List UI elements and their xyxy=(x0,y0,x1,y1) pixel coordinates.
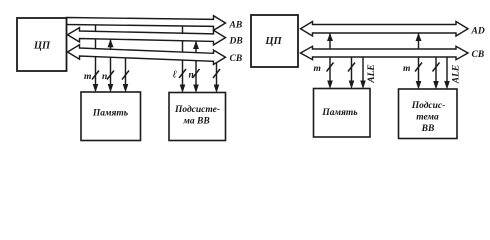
wire: right memory multiplexed line m from AD xyxy=(329,33,331,84)
arrowhead down into right memory multiplexed xyxy=(327,81,333,90)
arrowhead up into DB from left memory data xyxy=(108,39,114,47)
svg-text:Память: Память xyxy=(92,109,129,119)
wire: left IO address line l from AB xyxy=(182,26,184,88)
arrowhead down into right IO multiplexed xyxy=(416,81,422,90)
slash width mark l line left IO xyxy=(179,69,186,78)
slash width mark control line right memory xyxy=(348,63,355,72)
bus CB control bus right diagram xyxy=(301,46,469,59)
arrowhead down into left memory data xyxy=(108,84,114,93)
svg-text:ALE: ALE xyxy=(367,64,377,83)
slash width mark control line left IO xyxy=(213,69,220,78)
svg-text:AD: AD xyxy=(471,27,485,37)
svg-text:ЦП: ЦП xyxy=(264,36,282,47)
arrowhead down into right memory control xyxy=(349,81,355,90)
svg-text:Память: Память xyxy=(321,108,358,118)
svg-text:ℓ: ℓ xyxy=(173,70,178,81)
box CPU right diagram xyxy=(251,15,298,67)
arrowhead up into AD from right IO xyxy=(416,33,422,41)
wire: left memory control line from CB xyxy=(125,54,127,87)
wire: left IO data line n from DB xyxy=(195,41,197,88)
arrowhead up into AD from right memory xyxy=(327,33,333,41)
slash width mark n line left memory xyxy=(107,71,114,80)
bus DB data bus left diagram xyxy=(68,28,226,45)
slash width mark m line right IO xyxy=(415,63,422,72)
svg-text:Подсис-: Подсис- xyxy=(411,100,446,111)
svg-text:Подсисте-: Подсисте- xyxy=(174,104,220,115)
svg-text:ма ВВ: ма ВВ xyxy=(182,117,209,127)
slash width mark control line right IO xyxy=(433,63,440,72)
box CPU left diagram xyxy=(17,18,67,71)
wire: right IO multiplexed line m from AD xyxy=(418,33,420,84)
svg-text:m: m xyxy=(314,64,321,74)
svg-text:DB: DB xyxy=(229,37,243,47)
svg-text:n: n xyxy=(102,72,107,82)
svg-text:ЦП: ЦП xyxy=(33,41,51,52)
svg-text:ВВ: ВВ xyxy=(421,124,435,134)
arrowhead down into left IO address xyxy=(180,85,186,94)
wire: right IO control line from CB xyxy=(435,54,437,84)
box memory left diagram xyxy=(81,92,141,141)
box IO subsystem left diagram xyxy=(169,93,226,141)
wire: left memory data line n from DB xyxy=(110,39,112,87)
slash width mark control line left memory xyxy=(122,71,129,80)
arrowhead down into right memory ALE xyxy=(360,81,366,90)
box memory right diagram xyxy=(314,89,371,138)
arrowhead down into left memory control xyxy=(123,84,129,93)
arrowhead down into left IO control xyxy=(214,85,220,94)
arrowhead down into left IO data xyxy=(193,85,199,94)
bus AB address bus left diagram xyxy=(67,16,226,31)
wire: left IO control line from CB xyxy=(216,52,218,88)
arrowhead up into DB from left IO data xyxy=(193,41,199,49)
svg-text:CB: CB xyxy=(472,50,485,60)
arrowhead down into left memory address xyxy=(93,84,99,93)
arrowhead down into right IO control xyxy=(433,81,439,90)
svg-text:m: m xyxy=(403,64,410,74)
bus CB control bus left diagram xyxy=(68,45,226,65)
arrowhead down into right IO ALE xyxy=(444,81,450,90)
svg-text:CB: CB xyxy=(230,54,243,64)
slash width mark n line left IO xyxy=(193,69,200,78)
slash width mark m line left memory xyxy=(92,71,99,80)
svg-text:AB: AB xyxy=(229,21,243,31)
svg-text:ALE: ALE xyxy=(452,65,462,84)
wire: right memory ALE line from CB xyxy=(362,54,364,84)
wire: left memory address line m from AB xyxy=(95,25,97,87)
bus AD multiplexed bus right diagram xyxy=(301,22,469,37)
svg-text:тема: тема xyxy=(416,113,439,123)
svg-text:n: n xyxy=(189,71,194,81)
wire: right IO ALE line from CB xyxy=(446,54,448,84)
wire: right memory control line from CB xyxy=(351,54,353,84)
svg-text:m: m xyxy=(84,72,91,82)
slash width mark m line right memory xyxy=(327,63,334,72)
box IO subsystem right diagram xyxy=(399,89,458,139)
